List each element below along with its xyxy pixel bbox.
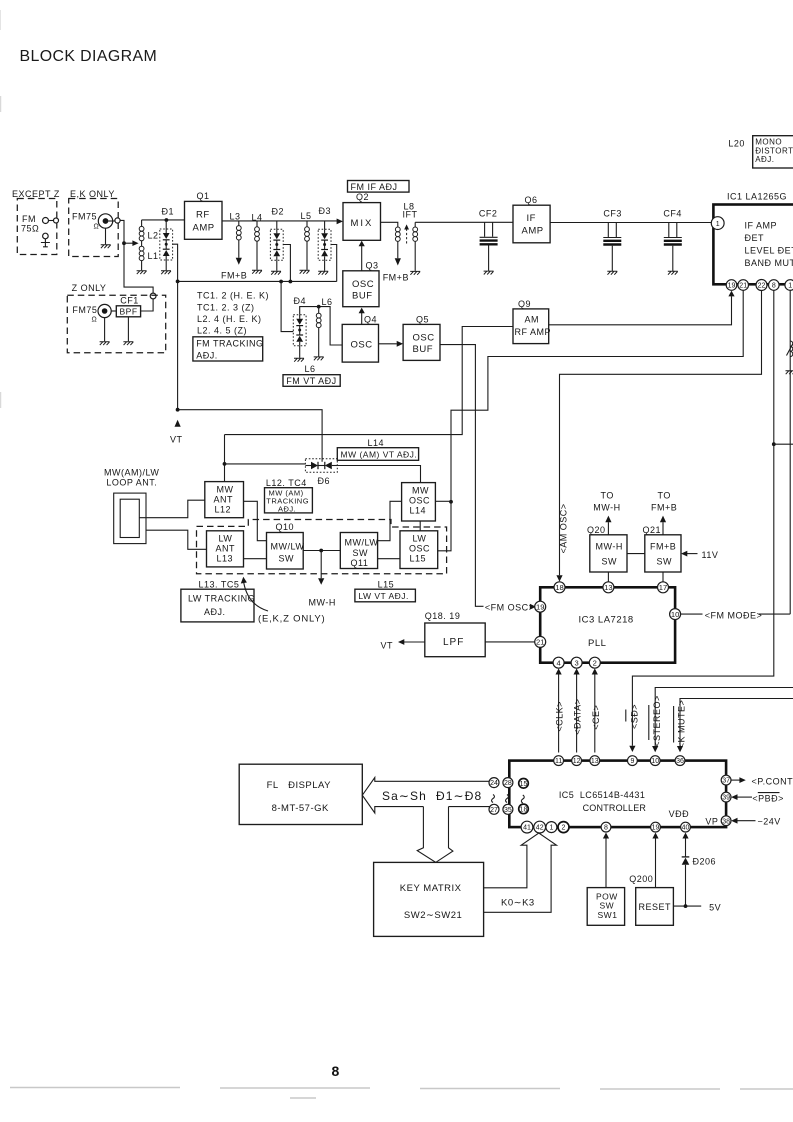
wire Q20 to TO MW-H (607, 522, 609, 535)
svg-text:Đ1: Đ1 (162, 207, 175, 217)
wire VT rail (178, 280, 337, 282)
junction VT rail (176, 280, 180, 284)
block MW ANT L12 (205, 482, 244, 518)
inductor L4 (252, 213, 263, 274)
svg-text:Ω: Ω (94, 224, 100, 231)
svg-text:SW: SW (353, 548, 369, 558)
connector FM 75ohm (except Z) (21, 214, 59, 247)
pin 4 of PLL (553, 657, 564, 668)
svg-text:AM: AM (525, 315, 540, 325)
svg-text:OSC: OSC (409, 544, 430, 554)
pin 17 of PLL (658, 582, 669, 593)
svg-text:Đ1∼Đ8: Đ1∼Đ8 (436, 789, 482, 803)
svg-text:FM+B: FM+B (383, 273, 409, 283)
svg-text:LW TRACKING: LW TRACKING (188, 593, 255, 603)
box E,K ONLY (dashed) (69, 199, 119, 257)
svg-text:AĐJ.: AĐJ. (755, 155, 774, 164)
svg-text:VĐĐ: VĐĐ (669, 809, 690, 819)
wire IF line L8 to Q6 (415, 221, 513, 223)
svg-text:15: 15 (520, 781, 528, 788)
wire Q11 to L14 (378, 501, 402, 540)
block LPF (425, 623, 485, 657)
svg-text:Z ONLY: Z ONLY (72, 283, 107, 293)
pin 8 of IC5 (601, 822, 611, 832)
svg-text:L13: L13 (217, 554, 234, 564)
label LW TRACKING ADJ box (181, 589, 254, 622)
antenna loop (square spiral) (114, 493, 207, 549)
wire LPF to PLL pin21 (485, 641, 535, 643)
svg-text:5V: 5V (709, 903, 721, 913)
wire 11V input (687, 553, 698, 555)
svg-text:BUF: BUF (413, 344, 434, 355)
wire L14 right to tank node (435, 500, 451, 502)
label FM TRACKING ADJ box (193, 337, 263, 361)
wire IC1 pin(1) to FM MODE (789, 290, 791, 614)
wire VT line to D6 center (178, 410, 323, 462)
block Q4 OSC (342, 324, 378, 362)
wire CE PLL pin2 to IC5 pin13 (594, 675, 596, 753)
svg-text:17: 17 (659, 583, 667, 592)
svg-text:LOOP ANT.: LOOP ANT. (106, 478, 157, 488)
svg-text:8: 8 (604, 825, 608, 832)
svg-text:Đ2: Đ2 (272, 207, 285, 217)
svg-text:ANT: ANT (216, 544, 236, 554)
svg-text:VT: VT (170, 435, 183, 445)
svg-text:L13. TC5: L13. TC5 (199, 580, 240, 590)
svg-text:L6: L6 (322, 297, 333, 307)
wire STEREO to IC5 pin10 (655, 688, 793, 747)
block FL DISPLAY (239, 764, 362, 824)
pin 21 of IC1 (738, 280, 749, 291)
svg-text:SW: SW (602, 557, 618, 567)
svg-text:Đ206: Đ206 (693, 857, 717, 867)
wire pin37 P.CONT (arrow right) (731, 779, 740, 781)
wire IC1 pin22 to AM OSC PLL pin18 (560, 291, 762, 576)
svg-text:42: 42 (536, 825, 544, 832)
svg-text:Đ3: Đ3 (319, 206, 332, 216)
svg-text:MW (AM) VT AĐJ.: MW (AM) VT AĐJ. (341, 449, 418, 459)
junction at D1 (165, 218, 169, 222)
svg-text:22: 22 (758, 283, 766, 290)
svg-text:CF1: CF1 (120, 296, 139, 306)
svg-text:Ω: Ω (92, 317, 98, 324)
svg-text:L2. 4 (H. E. K): L2. 4 (H. E. K) (197, 314, 262, 324)
wire pin39 PBD (arrow left, overline) (737, 796, 752, 798)
inductor L6 (305, 297, 333, 374)
pin 21 of PLL (535, 636, 546, 647)
label MONO DISTORT ADJ box (753, 136, 793, 168)
pin (1) of IC1 right (785, 280, 793, 291)
transformer L8 IFT (381, 202, 421, 283)
wire IC1 pin8 to SD (632, 290, 773, 746)
block Q2 MIX (343, 203, 381, 241)
svg-text:Đ4: Đ4 (294, 296, 307, 306)
wire Q4 to Q5 (arrow right) (379, 343, 397, 345)
block Q6 IF AMP (513, 205, 550, 243)
wire E,K feed to L1/L2 tap and Z BPF (120, 220, 153, 293)
svg-text:Q4: Q4 (364, 315, 377, 325)
svg-text:MW-H: MW-H (309, 598, 336, 608)
svg-text:4: 4 (556, 658, 560, 667)
svg-text:Q18. 19: Q18. 19 (425, 611, 461, 621)
scan artifact bottom line (10, 1088, 793, 1090)
svg-text:39: 39 (722, 795, 730, 802)
wire L14 to L15 (419, 521, 421, 531)
big hollow arrow KEY MATRIX to IC5 pins 41/42/1/2 (484, 833, 557, 912)
squiggle connectors between pin rows (492, 795, 525, 804)
svg-text:13: 13 (604, 583, 612, 592)
svg-text:MW-H: MW-H (596, 542, 623, 552)
svg-text:<CE>: <CE> (591, 705, 601, 730)
svg-text:2: 2 (562, 825, 566, 832)
wire CLK PLL pin4 to IC5 pin11 (558, 675, 560, 753)
svg-text:FM+B: FM+B (650, 542, 676, 552)
svg-text:SW1: SW1 (598, 910, 618, 920)
svg-text:LPF: LPF (443, 637, 464, 648)
svg-text:8: 8 (332, 1063, 340, 1079)
wire Q4 to Q3 (arrow up) (361, 313, 363, 324)
block KEY MATRIX (374, 862, 484, 936)
component cut at right edge (coil/arrow) (787, 342, 793, 356)
diode D206 (685, 865, 687, 906)
svg-text:<SĐ>: <SĐ> (630, 704, 640, 729)
svg-text:CF3: CF3 (603, 209, 622, 219)
svg-text:SW: SW (279, 554, 295, 564)
svg-text:LW: LW (413, 534, 427, 544)
wire IC1 pin21 to AM osc tank (438, 290, 744, 551)
svg-text:MIX: MIX (351, 218, 374, 229)
svg-text:MW(AM)/LW: MW(AM)/LW (104, 468, 159, 478)
label LW VT ADJ box (355, 589, 416, 602)
svg-text:LW VT AĐJ.: LW VT AĐJ. (358, 591, 409, 601)
connector FM75 coax (Z) (72, 304, 111, 345)
pin 41 of IC5 (521, 821, 533, 833)
pin 10 of PLL (670, 609, 681, 620)
svg-text:OSC: OSC (413, 333, 435, 344)
block Q20 MW-H SW (590, 535, 627, 572)
wire Q21 to TO FM+B (662, 522, 664, 535)
svg-text:<FM OSC>: <FM OSC> (485, 603, 535, 613)
wire LPF VT output (arrow left) (404, 641, 425, 643)
svg-text:9: 9 (630, 758, 634, 765)
wire POW SW to IC5 pin8 (605, 839, 607, 888)
big hollow arrow to FL DISPLAY (362, 778, 489, 814)
svg-text:1: 1 (716, 221, 720, 228)
svg-text:<STEREO>: <STEREO> (652, 695, 662, 747)
pin 40 of IC5 (681, 822, 691, 832)
pin 1 of IC5 (546, 822, 557, 833)
block Q5 OSC BUF (403, 324, 440, 360)
label FM IF ADJ box (348, 181, 410, 193)
svg-text:L1: L1 (148, 251, 159, 261)
pin 22 of IC1 (756, 280, 767, 291)
svg-text:AĐJ.: AĐJ. (196, 350, 218, 360)
svg-text:IC5 LC6514B-4431: IC5 LC6514B-4431 (559, 790, 645, 800)
svg-text:11: 11 (555, 758, 562, 765)
svg-text:BPF: BPF (120, 307, 138, 317)
svg-text:FM75: FM75 (72, 305, 97, 315)
pin 11 of IC5 (554, 756, 564, 766)
svg-text:RF: RF (196, 210, 210, 221)
svg-text:L2: L2 (148, 231, 159, 241)
box Z ONLY (dashed) (67, 295, 165, 353)
svg-text:12: 12 (573, 758, 581, 765)
svg-text:Q11: Q11 (351, 558, 369, 568)
diode D2 varactor pair (270, 207, 290, 282)
block POW SW SW1 (587, 888, 624, 926)
svg-text:ĐET: ĐET (745, 233, 765, 243)
svg-text:BANĐ MUT: BANĐ MUT (745, 258, 793, 268)
wire Q20-Q21 link (627, 553, 645, 555)
pin 2 of PLL (589, 657, 600, 668)
pin 19 of PLL (535, 601, 546, 612)
svg-text:11V: 11V (702, 550, 719, 560)
wire Q10 to Q11 (303, 550, 340, 552)
svg-text:CF4: CF4 (663, 209, 682, 219)
svg-text:<PBĐ>: <PBĐ> (752, 793, 784, 803)
svg-text:1: 1 (788, 283, 792, 290)
svg-text:35: 35 (504, 807, 512, 814)
svg-text:(E,K,Z ONLY): (E,K,Z ONLY) (258, 614, 326, 625)
svg-text:IFT: IFT (403, 210, 418, 220)
pin 1 of IC1 (711, 217, 724, 230)
block MW/LW SW Q11 (340, 533, 377, 569)
block LW OSC L15 (400, 531, 438, 569)
svg-text:Q10: Q10 (276, 522, 295, 532)
svg-text:CONTROLLER: CONTROLLER (583, 803, 647, 813)
svg-text:VP: VP (705, 816, 718, 826)
svg-text:13: 13 (591, 758, 599, 765)
svg-text:L3: L3 (230, 212, 241, 222)
svg-text:ĐISTORT: ĐISTORT (755, 146, 793, 155)
svg-text:Q200: Q200 (629, 874, 653, 884)
svg-text:21: 21 (739, 283, 747, 290)
wire Q1 output to MIX (222, 220, 337, 222)
svg-text:RESET: RESET (639, 902, 672, 912)
block Q3 OSC BUF (343, 271, 379, 307)
svg-text:L12. TC4: L12. TC4 (266, 478, 307, 488)
svg-text:L15: L15 (378, 579, 395, 589)
svg-text:AMP: AMP (193, 223, 215, 234)
svg-text:K0∼K3: K0∼K3 (501, 898, 535, 909)
block Q1 RF AMP (185, 201, 223, 239)
svg-text:<AM OSC>: <AM OSC> (559, 503, 569, 553)
wire 5V to RESET/D206 (673, 905, 701, 907)
svg-text:8: 8 (772, 283, 776, 290)
svg-text:E,K ONLY: E,K ONLY (70, 189, 115, 199)
wire LW ANT to Q10 (244, 558, 267, 560)
svg-text:TC1. 2. 3 (Z): TC1. 2. 3 (Z) (197, 302, 255, 312)
block MW/LW SW Q10 (267, 533, 304, 570)
wire DATA PLL pin3 to IC5 pin12 (576, 675, 578, 753)
svg-text:MW: MW (412, 486, 429, 496)
wire pin38 -24V (arrow left) (737, 820, 755, 822)
pin 3 of PLL (571, 657, 582, 668)
svg-text:BLOCK DIAGRAM: BLOCK DIAGRAM (20, 48, 158, 65)
pin 38 of IC5 (721, 816, 731, 826)
label MW (AM) VT ADJ box (337, 448, 418, 461)
box (E,K,Z) dashed region (197, 520, 447, 574)
arrow VT feed (175, 420, 181, 427)
svg-text:40: 40 (682, 825, 690, 832)
wire Q6 to IC1 pin1 (550, 222, 711, 224)
svg-text:OSC: OSC (409, 496, 430, 506)
svg-text:Q1: Q1 (197, 191, 210, 201)
IC IC3 LA7218 PLL (540, 587, 675, 662)
svg-text:IC3 LA7218: IC3 LA7218 (579, 615, 634, 626)
svg-text:PLL: PLL (588, 638, 606, 649)
pin 27 of IC5 (489, 804, 499, 814)
svg-text:3: 3 (574, 658, 578, 667)
svg-text:L15: L15 (410, 554, 427, 564)
pin 24 of IC5 (489, 778, 499, 788)
box EXCEPT Z (dashed) (17, 199, 57, 255)
wire Q20 to PLL pin13 (607, 572, 609, 582)
svg-text:FM+B: FM+B (651, 503, 677, 513)
pin 35 of IC5 (503, 804, 513, 814)
pin 19 of IC5 (651, 822, 661, 832)
block MW OSC L14 (402, 483, 436, 521)
pin 28 of IC5 (503, 778, 513, 788)
svg-text:AMP: AMP (522, 226, 544, 237)
wire D1 mid tap to VT vertical (173, 244, 178, 410)
pin 10 of IC5 (650, 756, 660, 766)
svg-text:10: 10 (671, 610, 679, 619)
wire MW-H arrow (320, 551, 322, 579)
pin 13 of IC5 (590, 756, 600, 766)
pin 13 of PLL (603, 582, 614, 593)
svg-text:FM TRACKING: FM TRACKING (196, 339, 263, 349)
pin 42 of IC5 (534, 821, 546, 833)
wire Q5 out FM OSC to PLL pin19 (440, 345, 484, 607)
IC IC5 LC6514B-4431 CONTROLLER (509, 761, 726, 828)
svg-text:L12: L12 (215, 505, 232, 515)
svg-text:1: 1 (549, 825, 553, 832)
block Q21 FM+B SW (645, 535, 681, 572)
svg-text:Q20: Q20 (587, 525, 606, 535)
svg-text:CF2: CF2 (479, 209, 498, 219)
svg-text:MW/LW: MW/LW (345, 538, 379, 548)
pin 19 of IC1 (726, 280, 737, 291)
svg-text:38: 38 (722, 818, 730, 825)
svg-text:L6: L6 (305, 364, 316, 374)
svg-text:19: 19 (536, 602, 544, 611)
label FM VT ADJ box (283, 375, 340, 387)
pin 39 of IC5 (721, 792, 731, 802)
pin 9 of IC5 (628, 756, 638, 766)
svg-text:IF: IF (527, 213, 536, 224)
svg-text:Đ6: Đ6 (318, 476, 331, 486)
junction tap into L1/L2 (122, 241, 126, 245)
svg-text:LW: LW (219, 534, 233, 544)
svg-text:OSC: OSC (351, 340, 373, 351)
block RESET (636, 888, 674, 926)
wire Q3 to MIX (arrow up) (361, 246, 363, 271)
svg-text:<CLK>: <CLK> (555, 701, 565, 732)
svg-text:<FM MOĐE>: <FM MOĐE> (705, 610, 763, 620)
svg-text:EXCEPT Z: EXCEPT Z (12, 189, 60, 199)
filter CF1 BPF (111, 296, 140, 346)
svg-text:10: 10 (651, 758, 659, 765)
svg-text:MONO: MONO (755, 138, 782, 147)
svg-text:L20: L20 (728, 139, 745, 149)
svg-text:SW: SW (657, 557, 673, 567)
svg-text:Q21: Q21 (643, 525, 662, 535)
pin 37 of IC5 (721, 775, 731, 785)
svg-text:36: 36 (676, 758, 684, 765)
diode D6 varactor pair (horizontal) (305, 459, 337, 486)
pin 15 of IC5 (519, 779, 529, 789)
svg-text:MW-H: MW-H (593, 503, 620, 513)
svg-text:<ĐATA>: <ĐATA> (573, 699, 583, 735)
inductor L2/L1 antenna coil (137, 220, 159, 274)
svg-text:37: 37 (722, 778, 730, 785)
svg-text:2: 2 (593, 658, 597, 667)
diode D4 varactor pair (293, 296, 318, 362)
wire loop to MW ANT / LW ANT done in loop; wire MW ANT to Q10 (244, 501, 267, 540)
inductor L3 with FM+B feed (221, 212, 247, 281)
svg-text:MW/LW: MW/LW (271, 542, 305, 552)
svg-text:75Ω: 75Ω (21, 224, 39, 234)
pin 12 of IC5 (572, 756, 582, 766)
label MW (AM) TRACKING ADJ box (265, 488, 313, 513)
svg-text:Q5: Q5 (416, 315, 429, 325)
inductor L5 (300, 211, 312, 274)
svg-text:RF AMP: RF AMP (515, 327, 552, 337)
svg-text:AĐJ.: AĐJ. (278, 505, 296, 514)
svg-text:Q9: Q9 (518, 299, 531, 309)
pin 2 of IC5 (558, 822, 569, 833)
svg-text:FL ĐISPLAY: FL ĐISPLAY (267, 780, 332, 791)
pin 18 of IC5 (519, 804, 529, 814)
wire FM MODE to PLL pin10 (681, 613, 703, 615)
wire RESET to IC5 pin19 (655, 839, 657, 888)
svg-text:Sa∼Sh: Sa∼Sh (382, 789, 427, 803)
svg-text:KEY MATRIX: KEY MATRIX (400, 883, 462, 894)
svg-text:OSC: OSC (352, 279, 374, 290)
svg-text:FM+B: FM+B (221, 271, 247, 281)
svg-text:L14: L14 (410, 506, 427, 516)
svg-text:Q2: Q2 (356, 192, 369, 202)
svg-text:TC1. 2 (H. E. K): TC1. 2 (H. E. K) (197, 291, 269, 301)
svg-text:L14: L14 (368, 438, 385, 448)
svg-text:21: 21 (536, 638, 544, 647)
svg-text:8-MT-57-GK: 8-MT-57-GK (272, 803, 329, 814)
svg-text:Q6: Q6 (525, 195, 538, 205)
svg-text:AĐJ.: AĐJ. (204, 607, 226, 617)
svg-text:TO: TO (601, 491, 614, 501)
svg-text:MW: MW (217, 485, 234, 495)
wire Q4 left to L6/D4 node (319, 307, 343, 345)
svg-text:IF AMP: IF AMP (745, 221, 778, 231)
wire MW ANT top riser to tank (224, 435, 226, 482)
wire D6 line (225, 463, 306, 465)
svg-text:LEVEL ĐET: LEVEL ĐET (745, 246, 793, 256)
block Q9 AM RF AMP (513, 309, 549, 344)
svg-text:41: 41 (523, 825, 531, 832)
svg-text:TO: TO (658, 491, 671, 501)
svg-text:SW2∼SW21: SW2∼SW21 (404, 910, 462, 921)
svg-text:ANT: ANT (214, 495, 234, 505)
svg-text:27: 27 (490, 807, 498, 814)
wire rail to D4 mid (281, 282, 293, 332)
svg-text:Q3: Q3 (366, 260, 379, 270)
svg-text:18: 18 (520, 806, 528, 813)
diode D3 varactor pair (318, 206, 337, 282)
svg-text:19: 19 (728, 283, 736, 290)
wire Q9 output to IC1 pin19 (arrow up) (549, 296, 732, 325)
svg-text:28: 28 (504, 780, 512, 787)
